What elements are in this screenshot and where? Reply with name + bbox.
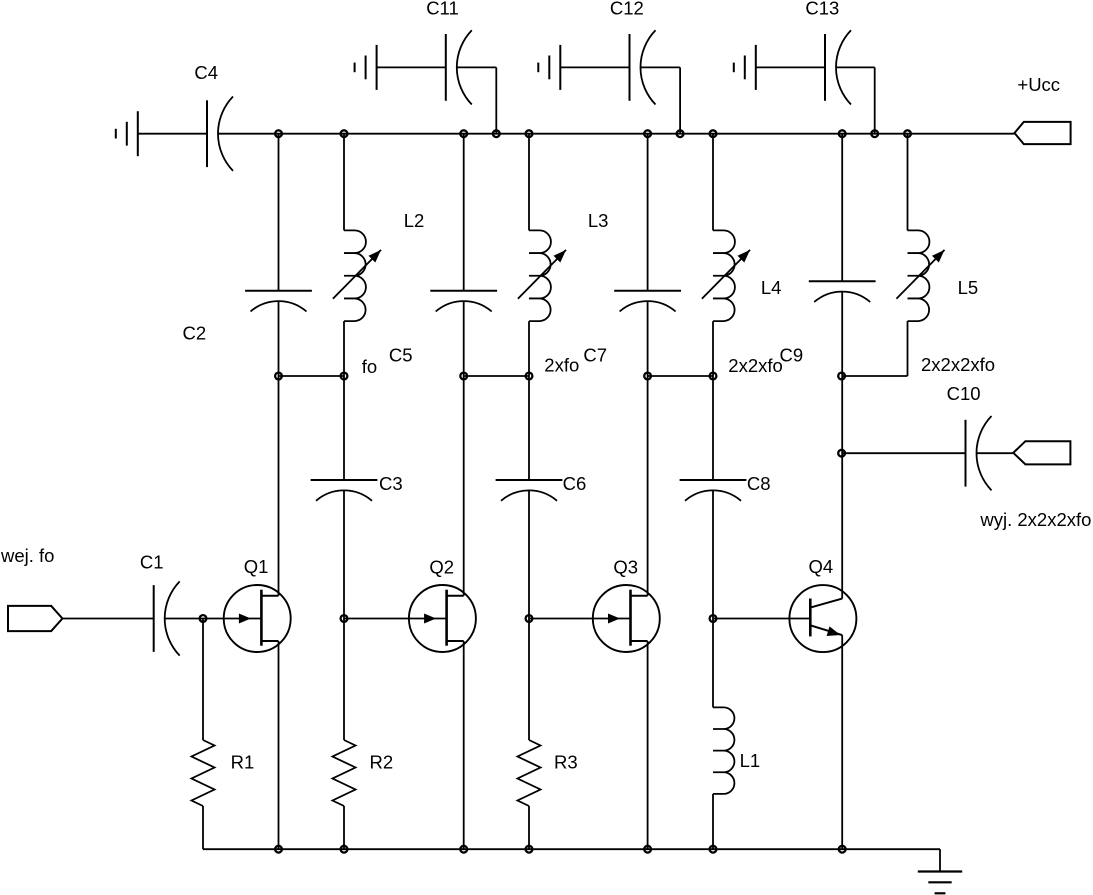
svg-text:R3: R3 — [554, 752, 578, 773]
svg-text:C11: C11 — [426, 0, 459, 18]
svg-text:C6: C6 — [563, 473, 587, 494]
svg-text:wej. fo: wej. fo — [0, 545, 54, 566]
svg-text:C8: C8 — [747, 473, 771, 494]
svg-text:C9: C9 — [780, 344, 804, 365]
svg-text:C12: C12 — [610, 0, 644, 18]
svg-text:C1: C1 — [140, 551, 164, 572]
svg-text:C13: C13 — [805, 0, 839, 18]
svg-text:Q3: Q3 — [613, 556, 638, 577]
svg-text:L2: L2 — [404, 210, 425, 231]
svg-text:R1: R1 — [231, 752, 255, 773]
svg-text:2x2x2xfo: 2x2x2xfo — [921, 354, 995, 375]
svg-text:C3: C3 — [379, 473, 403, 494]
svg-text:L5: L5 — [958, 277, 979, 298]
svg-text:C2: C2 — [183, 323, 207, 344]
svg-text:C7: C7 — [583, 345, 607, 366]
svg-text:Q2: Q2 — [429, 556, 454, 577]
svg-text:Q4: Q4 — [809, 556, 834, 577]
svg-text:2xfo: 2xfo — [544, 355, 579, 376]
svg-text:L1: L1 — [740, 750, 761, 771]
svg-text:fo: fo — [362, 356, 377, 377]
svg-text:R2: R2 — [370, 752, 394, 773]
svg-text:2x2xfo: 2x2xfo — [728, 355, 783, 376]
svg-text:wyj. 2x2x2xfo: wyj. 2x2x2xfo — [979, 509, 1091, 530]
svg-text:L3: L3 — [588, 210, 609, 231]
svg-text:C10: C10 — [947, 383, 981, 404]
svg-text:+Ucc: +Ucc — [1017, 74, 1060, 95]
svg-text:L4: L4 — [761, 277, 782, 298]
svg-text:C5: C5 — [389, 345, 413, 366]
svg-text:Q1: Q1 — [244, 556, 269, 577]
svg-text:C4: C4 — [194, 62, 218, 83]
